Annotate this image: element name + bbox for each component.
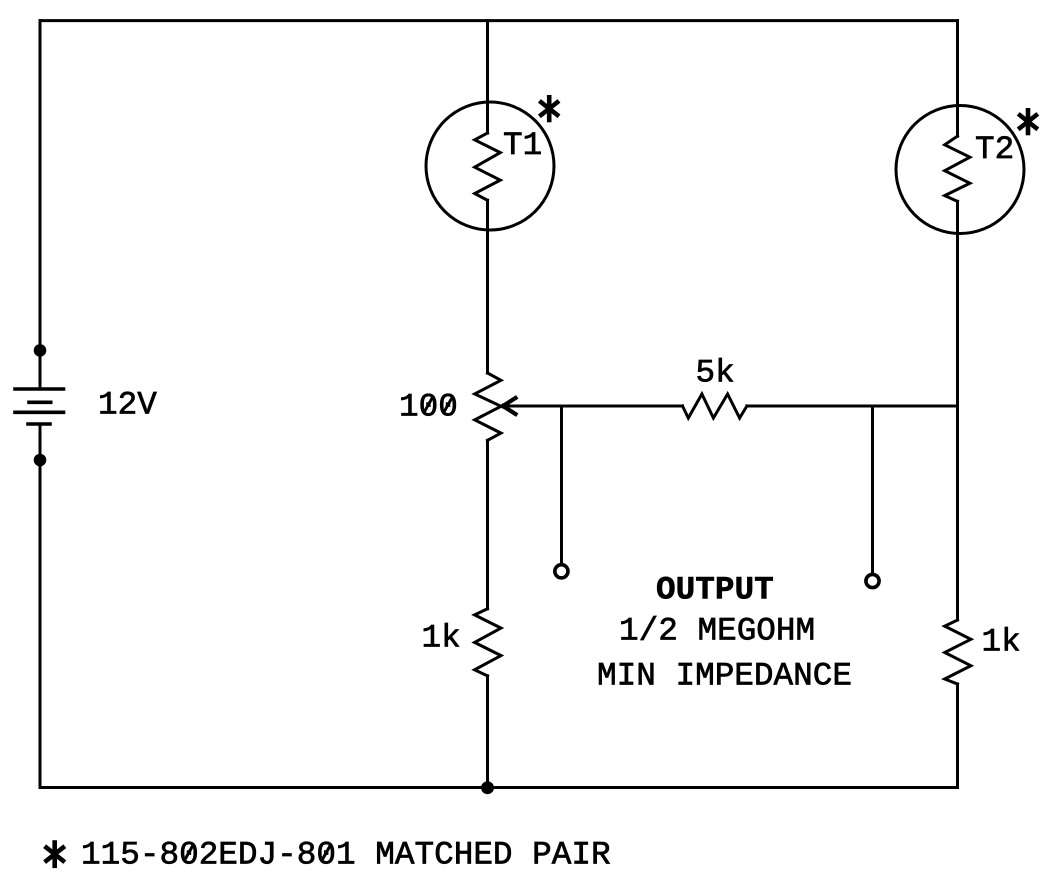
- node battery + junction dot: [35, 346, 45, 356]
- asterisk footnote marker: [46, 843, 63, 866]
- resistor 1k right zigzag: [945, 620, 971, 684]
- wire output drop right: [871, 406, 874, 573]
- slash in zero 2 of 100: [444, 397, 453, 413]
- wire right R 1k right to bottom: [956, 684, 959, 788]
- wire center R 1k left to bottom: [486, 676, 489, 788]
- output terminal right circle: [866, 574, 879, 587]
- wire right T2 to R 1k right: [956, 201, 959, 620]
- wire center T1 to potentiometer: [486, 200, 489, 373]
- wire center potentiometer to R 1k left: [486, 440, 489, 608]
- svg-text:1k: 1k: [422, 619, 461, 656]
- wire right top (top wire to T2): [956, 21, 959, 137]
- thermistor T2 circle: [896, 106, 1024, 234]
- wire top horizontal: [40, 19, 958, 22]
- resistor 1k left zigzag: [475, 609, 501, 676]
- node battery - junction dot: [35, 455, 45, 465]
- svg-text:OUTPUT: OUTPUT: [656, 571, 774, 608]
- asterisk at T2: [1020, 110, 1036, 133]
- wire bottom horizontal: [40, 786, 958, 789]
- wire wiper horizontal right segment (5k to right rail): [747, 405, 958, 408]
- battery B1 12V: [15, 389, 64, 424]
- svg-text:1k: 1k: [982, 624, 1021, 661]
- thermistor T1 resistor zigzag: [475, 133, 501, 200]
- svg-text:115-802EDJ-801 MATCHED PAIR: 115-802EDJ-801 MATCHED PAIR: [81, 837, 611, 874]
- wire left upper (top corner to battery +): [39, 21, 42, 389]
- node bottom center junction dot: [483, 783, 493, 793]
- resistor 5k zigzag: [683, 394, 747, 418]
- wire left lower (battery - to bottom corner): [39, 424, 42, 788]
- svg-text:MIN IMPEDANCE: MIN IMPEDANCE: [597, 658, 852, 695]
- svg-text:T2: T2: [975, 131, 1014, 168]
- svg-text:T1: T1: [503, 127, 542, 164]
- wire center top (top wire to T1): [486, 21, 489, 133]
- svg-text:5k: 5k: [696, 354, 735, 391]
- slash in zero of 801: [322, 845, 331, 861]
- asterisk at T1: [541, 97, 557, 120]
- slash in zero 1 of 100: [424, 397, 433, 413]
- potentiometer R 100 zigzag: [475, 373, 501, 440]
- output terminal left circle: [555, 565, 568, 578]
- svg-text:1/2 MEGOHM: 1/2 MEGOHM: [619, 613, 815, 650]
- thermistor T1 circle: [426, 102, 554, 230]
- wire wiper horizontal left segment: [503, 405, 683, 408]
- potentiometer wiper arrow head: [503, 398, 516, 414]
- wire output drop left: [560, 406, 563, 564]
- slash in zero of 802: [184, 845, 193, 861]
- svg-text:12V: 12V: [98, 387, 157, 424]
- thermistor T2 resistor zigzag: [945, 136, 970, 201]
